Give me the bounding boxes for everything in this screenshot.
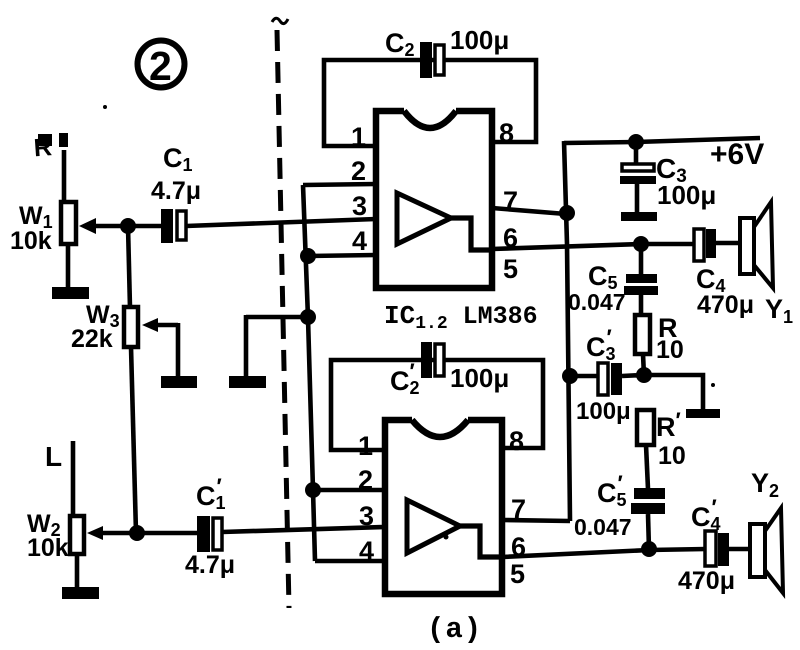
- svg-text:2: 2: [149, 43, 172, 89]
- svg-text:8: 8: [509, 426, 524, 456]
- ground: [229, 376, 266, 388]
- svg-text:470μ: 470μ: [678, 567, 735, 595]
- ground: [686, 409, 720, 418]
- speaker Y2: [750, 468, 783, 593]
- node junction ground bus: [300, 309, 316, 325]
- speaker Y1: [740, 202, 793, 327]
- svg-text:10k: 10k: [10, 227, 52, 255]
- resistor R': [637, 408, 686, 470]
- node junction C5: [633, 236, 649, 252]
- wire C4' to speaker: [729, 547, 751, 552]
- capacitor C2: [385, 25, 509, 78]
- op-amp IC2 LM386 body: [385, 420, 502, 594]
- svg-text:0.047: 0.047: [568, 289, 626, 315]
- capacitor C4': [678, 495, 735, 595]
- label W1 10k: [10, 202, 53, 255]
- wire C2' loop: [331, 360, 543, 450]
- node junction pin2 lower: [305, 482, 321, 498]
- capacitor C4: [694, 229, 754, 319]
- svg-text:(a): (a): [427, 613, 482, 646]
- wire C1 to pin3: [186, 219, 376, 226]
- svg-text:100μ: 100μ: [576, 398, 631, 425]
- svg-text:100μ: 100μ: [450, 25, 509, 55]
- potentiometer W1: [61, 202, 76, 288]
- svg-text:4.7μ: 4.7μ: [151, 177, 201, 205]
- svg-text:IC1.2 LM386: IC1.2 LM386: [384, 301, 538, 334]
- channel separator dashed line: [272, 18, 289, 608]
- potentiometer W2: [70, 516, 84, 588]
- potentiometer W3: [124, 307, 138, 533]
- label W3 22k: [71, 301, 120, 353]
- wire pin6 upper to speaker: [492, 244, 694, 249]
- capacitor C1: [151, 143, 201, 243]
- ground: [52, 287, 89, 299]
- op-amp IC1 triangle: [397, 193, 451, 244]
- wire C5' to pin6 lower: [648, 514, 649, 550]
- svg-text:470μ: 470μ: [697, 291, 754, 319]
- node junction C3: [628, 134, 644, 150]
- capacitor C2': [390, 342, 509, 398]
- svg-text:3: 3: [352, 191, 367, 221]
- svg-text:4.7μ: 4.7μ: [185, 551, 235, 579]
- scan speck: [711, 383, 715, 387]
- node R input label: [33, 133, 68, 162]
- wire C2 loop: [324, 60, 536, 146]
- capacitor C3: [620, 142, 716, 213]
- op-amp IC1 LM386 body: [376, 111, 492, 288]
- svg-text:1: 1: [358, 431, 373, 461]
- ground: [62, 587, 99, 599]
- svg-text:2: 2: [351, 156, 366, 186]
- node junction W1 wiper: [120, 218, 136, 234]
- wire +6V rail: [564, 138, 760, 143]
- wire IC2 output step: [460, 526, 502, 557]
- ground: [621, 212, 657, 221]
- wire W1 wiper: [79, 218, 128, 234]
- wire pin7 upper: [492, 208, 566, 214]
- svg-text:100μ: 100μ: [450, 363, 509, 393]
- wire pin4 lower: [315, 559, 385, 564]
- figure number badge 2: [138, 41, 185, 90]
- wire pin6 lower to speaker: [502, 549, 706, 557]
- node junction W2 wiper: [129, 525, 145, 541]
- node junction C3' R R': [636, 367, 652, 383]
- wire C4 to speaker: [716, 241, 741, 246]
- wire IC1 output step: [451, 218, 492, 250]
- wire L input: [71, 441, 76, 517]
- svg-text:2: 2: [358, 465, 373, 495]
- svg-text:L: L: [45, 441, 62, 472]
- wire pin2 lower: [313, 488, 385, 493]
- scan speck: [103, 105, 107, 109]
- node junction pin7 bus: [559, 205, 575, 221]
- capacitor C5: [568, 244, 658, 315]
- node junction C5' pin6: [641, 541, 657, 557]
- wire ground stub right: [644, 375, 703, 410]
- wire pin7 lower: [502, 520, 570, 521]
- wire pin4 upper: [308, 255, 376, 256]
- wire R input: [62, 150, 67, 203]
- svg-text:4: 4: [359, 536, 374, 566]
- wire ground bus vertical: [303, 185, 315, 561]
- wire pin2 upper: [303, 184, 376, 185]
- svg-text:22k: 22k: [71, 325, 113, 353]
- wire junction to C1': [137, 531, 198, 536]
- svg-text:10: 10: [658, 442, 686, 470]
- wire C1' to pin3 lower: [222, 527, 385, 532]
- svg-text:10: 10: [656, 336, 684, 364]
- svg-text:4: 4: [352, 226, 367, 256]
- wire supply bus vertical: [564, 141, 570, 521]
- wire R' to C5': [646, 445, 648, 489]
- wire ground branch: [246, 315, 309, 377]
- op-amp IC2 triangle: [407, 500, 460, 553]
- wire junction to C1: [128, 224, 162, 229]
- capacitor C5': [574, 471, 665, 540]
- svg-text:3: 3: [359, 501, 374, 531]
- scan speck: [444, 535, 449, 540]
- capacitor C1': [185, 474, 235, 579]
- node junction C3' bus: [562, 368, 578, 384]
- svg-text:100μ: 100μ: [657, 180, 716, 210]
- node junction pin4 upper: [300, 248, 316, 264]
- wire C5 to R: [639, 295, 644, 316]
- wire R to node: [643, 354, 644, 376]
- label W2 10k: [27, 510, 69, 562]
- svg-text:0.047: 0.047: [574, 514, 632, 540]
- resistor R: [635, 313, 684, 364]
- svg-text:5: 5: [510, 559, 525, 589]
- svg-text:+6V: +6V: [710, 138, 764, 171]
- wire W2 wiper: [87, 526, 137, 540]
- capacitor C3': [570, 325, 644, 425]
- wire junction down to W3: [128, 226, 130, 308]
- ground: [161, 376, 197, 388]
- svg-text:10k: 10k: [27, 534, 69, 562]
- wire W3 wiper: [142, 318, 178, 377]
- svg-text:5: 5: [503, 254, 518, 284]
